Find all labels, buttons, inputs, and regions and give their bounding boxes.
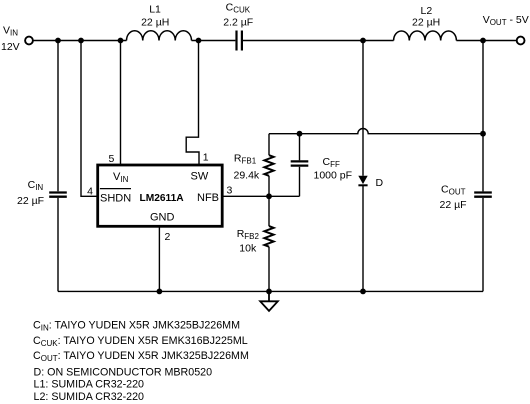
junction bottom at diode (360, 289, 366, 295)
label RFB2 10k (237, 228, 260, 255)
inductor L2 (394, 31, 457, 41)
svg-text:CCUK: TAIYO YUDEN X5R EMK316BJ: CCUK: TAIYO YUDEN X5R EMK316BJ225ML (33, 335, 248, 348)
svg-text:CCUK: CCUK (226, 2, 251, 15)
label COUT 22uF (440, 183, 467, 211)
svg-text:22 µH: 22 µH (141, 16, 169, 28)
terminal VIN (25, 37, 33, 45)
junction top rail at CIN branch (55, 38, 61, 44)
wire CCUK to L2 (243, 40, 394, 42)
junction bottom at RFB2 (266, 289, 272, 295)
label L2 22uH (412, 5, 440, 28)
svg-text:SHDN: SHDN (100, 193, 131, 205)
svg-text:RFB1: RFB1 (234, 153, 257, 166)
IC U1 LM2611A (98, 165, 223, 226)
svg-text:L2: SUMIDA CR32-220: L2: SUMIDA CR32-220 (34, 391, 145, 403)
svg-text:L1: L1 (149, 4, 161, 16)
svg-text:2.2 µF: 2.2 µF (223, 16, 253, 28)
svg-text:CIN: CIN (28, 179, 44, 192)
svg-text:VOUT - 5V: VOUT - 5V (483, 14, 529, 27)
label CFF 1000pF (314, 156, 353, 182)
note line 1 CIN part number (33, 320, 249, 404)
wire SW pin1 jog (186, 41, 199, 165)
capacitor CIN (49, 193, 67, 197)
wire L2 to VOUT (456, 40, 516, 42)
svg-text:D: ON SEMICONDUCTOR MBR0520: D: ON SEMICONDUCTOR MBR0520 (34, 367, 213, 379)
label L1 22uH (141, 4, 169, 29)
label CIN 22uF (17, 179, 44, 207)
wire NFB pin3 (222, 195, 299, 197)
svg-text:GND: GND (150, 211, 175, 223)
junction VOUT branch (480, 38, 486, 44)
wire VOUT branch vertical lower (482, 198, 484, 292)
svg-text:SW: SW (191, 171, 209, 183)
wire GND pin2 (158, 227, 160, 292)
capacitor COUT (474, 193, 492, 197)
svg-text:COUT: TAIYO YUDEN X5R JMK325BJ: COUT: TAIYO YUDEN X5R JMK325BJ226MM (33, 350, 249, 363)
svg-text:3: 3 (227, 184, 233, 196)
svg-text:L1: SUMIDA CR32-220: L1: SUMIDA CR32-220 (34, 378, 145, 390)
svg-text:VIN: VIN (3, 25, 18, 38)
svg-text:NFB: NFB (197, 192, 219, 204)
svg-text:2: 2 (165, 231, 171, 243)
junction L1 CCUK node (196, 38, 202, 44)
ground (260, 291, 278, 311)
svg-text:5: 5 (108, 153, 114, 165)
junction bottom at GND (157, 289, 163, 295)
wire VOUT branch vertical upper (482, 41, 484, 192)
svg-text:LM2611A: LM2611A (140, 193, 185, 204)
resistor RFB2 (264, 196, 273, 291)
svg-text:CFF: CFF (323, 156, 340, 169)
wire SHDN pin4 (81, 41, 97, 197)
inductor L1 (127, 31, 192, 41)
svg-text:29.4k: 29.4k (234, 169, 260, 181)
svg-text:22 µH: 22 µH (412, 16, 440, 28)
svg-text:RFB2: RFB2 (237, 228, 260, 241)
node label VOUT -5V (483, 14, 529, 27)
junction diode branch top (360, 38, 366, 44)
wire CIN branch lower (57, 198, 59, 292)
wire CIN branch upper (57, 41, 59, 192)
junction NFB node (266, 193, 272, 199)
wire bottom rail (58, 290, 483, 292)
svg-text:12V: 12V (1, 41, 20, 53)
wire feedback top with hop (269, 129, 483, 134)
node label VIN 12V (1, 25, 20, 54)
resistor RFB1 (264, 134, 273, 197)
wire VIN pin5 (120, 41, 122, 165)
svg-text:1000 pF: 1000 pF (314, 169, 353, 181)
svg-text:22 µF: 22 µF (440, 199, 467, 211)
junction CFF top (297, 131, 303, 137)
wire top rail left (33, 40, 127, 42)
junction top rail at SHDN branch (78, 38, 84, 44)
capacitor CCUK (237, 31, 242, 51)
junction feedback VOUT branch (480, 131, 486, 137)
svg-text:22 µF: 22 µF (17, 195, 44, 207)
label RFB1 29.4k (234, 153, 260, 182)
wire L1 to CCUK (192, 40, 236, 42)
svg-text:D: D (376, 177, 384, 189)
junction top rail at VIN pin5 branch (118, 38, 124, 44)
svg-text:10k: 10k (239, 243, 257, 255)
svg-text:COUT: COUT (441, 183, 466, 196)
terminal VOUT (517, 37, 525, 45)
svg-text:1: 1 (203, 152, 209, 164)
diode D (358, 41, 367, 292)
label CCUK 2.2uF (223, 2, 253, 29)
capacitor CFF (291, 134, 309, 197)
svg-text:4: 4 (87, 185, 93, 197)
svg-text:CIN: TAIYO YUDEN X5R JMK325BJ2: CIN: TAIYO YUDEN X5R JMK325BJ226MM (33, 320, 240, 333)
